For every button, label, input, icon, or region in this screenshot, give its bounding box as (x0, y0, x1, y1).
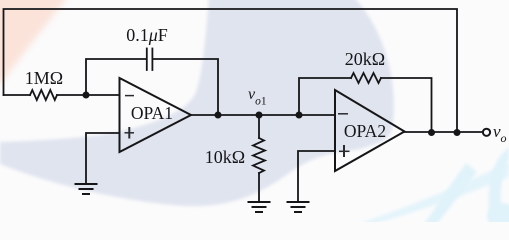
svg-text:1MΩ: 1MΩ (25, 68, 63, 88)
ground at OPA2 + input (288, 202, 309, 212)
wire: resistor R1 to OPA1 inverting input (through node A) (57, 94, 120, 96)
svg-text:0.1μF: 0.1μF (126, 25, 168, 45)
OPA1 plus sign (125, 132, 135, 134)
watermark cyan right-edge arc (489, 147, 509, 224)
resistor R3 20kΩ (351, 73, 381, 83)
watermark lavender blob (0, 0, 394, 206)
OPA1 minus sign (125, 95, 134, 97)
op-amp U1 OPA1 triangle (120, 78, 192, 152)
wire: OPA1 non-inverting input to ground stem (86, 133, 120, 184)
wire: OPA2 output to terminal (405, 131, 483, 133)
OPA2 minus sign (338, 113, 348, 115)
junction node vo1 / 10k resistor (256, 112, 263, 119)
watermark pink wedge (0, 0, 70, 92)
svg-text:20kΩ: 20kΩ (345, 49, 385, 69)
watermark cyan corner blob (487, 203, 509, 229)
terminal vo open circle (483, 129, 490, 136)
watermark cyan swoosh band bottom right (352, 162, 509, 226)
wire: 10k resistor to ground stem (258, 173, 260, 202)
ground at OPA1 + input (76, 184, 97, 194)
wire: input segment from left rail to resistor R1 (4, 94, 31, 96)
wire: top feedback from output rail to left rail (4, 9, 458, 133)
junction node at OPA2 output / 20k (428, 129, 435, 136)
wire: capacitor branch right down to OPA1 output node (152, 59, 218, 115)
wire: capacitor branch left vertical from node A (86, 59, 147, 95)
ground below R2 (249, 202, 270, 212)
svg-text:OPA2: OPA2 (344, 121, 386, 141)
capacitor C 0.1μF plates (146, 49, 148, 71)
wire: OPA2 non-inverting input to ground stem (298, 151, 335, 202)
OPA2 plus sign (339, 150, 350, 152)
junction node A (R1 / C / OPA1 inverting) (83, 92, 90, 99)
resistor R1 1MΩ (30, 90, 57, 100)
wire: 20k resistor to OPA2 output junction (381, 78, 432, 133)
wire: 20k feedback branch up from node B (299, 78, 351, 115)
svg-text:10kΩ: 10kΩ (205, 147, 245, 167)
wire: 10k branch down from node vo1 (258, 115, 260, 138)
svg-text:OPA1: OPA1 (131, 103, 173, 123)
junction node at OPA1 output / capacitor (215, 112, 222, 119)
junction node at OPA2 output / top feedback rail (454, 129, 461, 136)
watermark cyan diagonal bar (424, 163, 477, 224)
junction node B (20k feedback / OPA2 inverting) (296, 112, 303, 119)
wire: OPA1 output to OPA2 inverting input (191, 114, 335, 116)
op-amp U2 OPA2 triangle (335, 90, 405, 171)
resistor R2 10kΩ (vertical) (253, 138, 265, 173)
